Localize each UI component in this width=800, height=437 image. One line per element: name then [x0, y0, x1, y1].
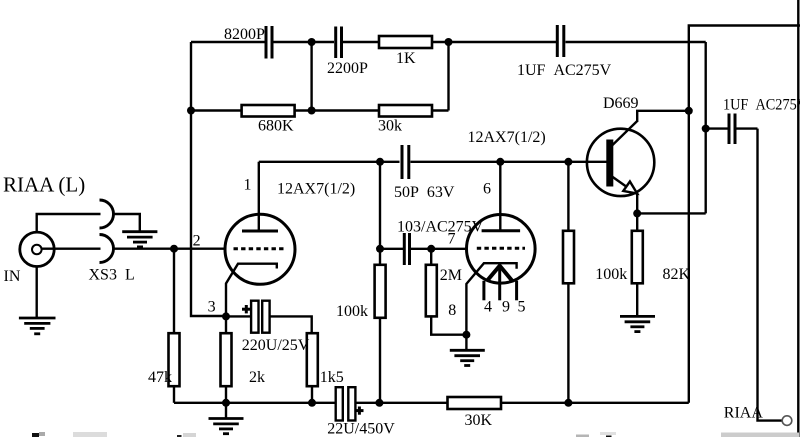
- svg-text:6: 6: [483, 181, 491, 198]
- junction 1K right top: [445, 38, 453, 46]
- svg-text:50P 63V: 50P 63V: [394, 184, 455, 201]
- svg-text:3: 3: [208, 299, 216, 316]
- svg-text:7: 7: [448, 231, 456, 248]
- wire H2: rail to 680K: [191, 109, 242, 111]
- svg-text:100k: 100k: [336, 303, 368, 320]
- wire rail C down to output: [758, 129, 783, 421]
- svg-text:1UF AC275V: 1UF AC275V: [517, 62, 612, 79]
- plus sign 220U: [242, 305, 251, 313]
- ground symbol IN: [19, 318, 56, 334]
- wire vertical node 8200P/2200P down: [310, 42, 312, 111]
- tube U1 grid dashes: [234, 247, 286, 250]
- ground 100k stub: [636, 283, 638, 316]
- svg-text:2200P: 2200P: [327, 60, 368, 77]
- resistor 30k: [379, 105, 432, 117]
- tube U2 cathode: [466, 263, 516, 335]
- wire 50P to transistor base: [411, 161, 607, 163]
- wire 100k to bottom rail: [379, 318, 381, 403]
- junction 103 cap / 2M: [427, 245, 435, 253]
- junction 8200P/2200P top: [308, 38, 316, 46]
- capacitor 220U/25V plates: [251, 301, 258, 333]
- resistor 82K: [563, 231, 574, 283]
- tube U2 grid dashes: [477, 247, 525, 250]
- ground symbol 2k: [209, 419, 244, 434]
- wire pin to XS3: [42, 247, 101, 249]
- pin 5 stub: [515, 281, 518, 301]
- capacitor 50P 63V: [402, 145, 409, 179]
- wire 30K to rail A: [501, 402, 689, 404]
- resistor 100k first: [375, 265, 386, 318]
- junction bottom rail / 1k5: [308, 399, 316, 407]
- transistor collector line: [612, 121, 637, 146]
- bottom cut-off glyph fragments: [32, 432, 799, 437]
- RCA jack inner: [32, 245, 42, 255]
- transistor base bar: [606, 140, 613, 187]
- transistor emitter line: [612, 177, 629, 189]
- plus sign 22U: [355, 407, 363, 415]
- wire upper contact to ground: [113, 214, 140, 232]
- wire 220U to 1k5: [270, 316, 312, 333]
- svg-text:1: 1: [244, 177, 252, 194]
- svg-text:D669: D669: [603, 95, 639, 112]
- tube1 anode lead: [258, 162, 260, 230]
- wire node to 1UF cap: [449, 41, 557, 43]
- wire emitter junction to rail B: [637, 212, 706, 214]
- capacitor 103/AC275V: [380, 248, 403, 250]
- right edge wire: [797, 0, 799, 437]
- junction 100k line / 103 cap: [376, 245, 384, 253]
- wire collector to rail A: [637, 111, 689, 122]
- tube U2 anode bar: [482, 229, 520, 232]
- wire vertical node 1K right down: [447, 42, 449, 111]
- ground symbol XS3: [122, 232, 157, 247]
- ground IN stub: [36, 266, 38, 318]
- svg-text:12AX7(1/2): 12AX7(1/2): [468, 129, 546, 146]
- junction bottom rail / 100k: [375, 399, 383, 407]
- wire x380 node down through 100k: [379, 162, 381, 265]
- resistor 30K: [448, 397, 502, 409]
- resistor 1K: [379, 36, 432, 48]
- svg-text:103/AC275V: 103/AC275V: [397, 218, 484, 235]
- wire 3-node to 220U: [226, 315, 251, 317]
- wire x568 down: [567, 162, 569, 231]
- bottom rail left: [174, 402, 336, 404]
- svg-text:1UF AC275V: 1UF AC275V: [723, 97, 800, 114]
- ground symbol 100k emitter: [620, 316, 655, 331]
- junction tube2 cathode / 2M: [462, 331, 470, 339]
- svg-text:RIAA: RIAA: [724, 405, 764, 422]
- junction grid wire / 47k: [170, 245, 178, 253]
- junction 680K/30k: [308, 107, 316, 115]
- resistor 1k5: [307, 333, 318, 386]
- junction left rail / 680K: [187, 107, 195, 115]
- wire 103 to tube2 grid: [411, 248, 467, 250]
- junction anode rail / 82K: [564, 158, 572, 166]
- svg-text:IN: IN: [4, 268, 21, 285]
- XS3 lower contact arc: [100, 235, 114, 263]
- wire rail B x=706: [705, 42, 707, 213]
- junction bottom rail / 82K: [564, 399, 572, 407]
- svg-text:5: 5: [518, 299, 526, 316]
- svg-text:RIAA (L): RIAA (L): [3, 173, 85, 197]
- tube U1 anode bar: [242, 230, 278, 233]
- XS3 upper contact arc: [100, 200, 114, 228]
- svg-text:680K: 680K: [258, 118, 294, 135]
- wire 22U to 30K: [355, 402, 447, 404]
- wire output cap: [706, 127, 728, 129]
- wire 30k to corner: [432, 109, 449, 111]
- junction anode rail / pin 6: [496, 158, 504, 166]
- capacitor 8200P: [266, 26, 272, 59]
- wire grid wire to tube1: [113, 247, 226, 249]
- wire top rail left vertical: [191, 42, 226, 316]
- junction node 3: [222, 312, 230, 320]
- junction emitter node: [633, 209, 641, 217]
- tube U1 circle: [225, 214, 295, 284]
- junction collector / rail A: [685, 107, 693, 115]
- wire 2200P to R 1K: [343, 41, 379, 43]
- wire 1UF to rail B: [566, 41, 706, 43]
- svg-text:4: 4: [484, 299, 492, 316]
- svg-text:30K: 30K: [465, 412, 493, 429]
- resistor 47k: [173, 249, 175, 334]
- svg-text:47k: 47k: [148, 369, 172, 386]
- svg-text:82K: 82K: [663, 266, 691, 283]
- wire 82K to bottom rail: [567, 283, 569, 403]
- junction rail B / output cap: [702, 125, 710, 133]
- ground tube2 cathode stub: [465, 335, 467, 351]
- svg-text:12AX7(1/2): 12AX7(1/2): [277, 181, 355, 198]
- tube U2 circle: [467, 215, 536, 284]
- heater pin 9 lead: [498, 266, 501, 301]
- junction bottom rail / 2k ground: [222, 399, 230, 407]
- ground 2k stub: [225, 403, 227, 419]
- transistor emitter arrowhead: [623, 182, 637, 194]
- resistor 100k emitter: [632, 231, 643, 283]
- wire H1 top: left to 8200P: [191, 41, 265, 43]
- svg-text:30k: 30k: [378, 118, 402, 135]
- svg-text:2: 2: [193, 233, 201, 250]
- svg-text:9: 9: [502, 299, 510, 316]
- svg-text:1k5: 1k5: [320, 369, 344, 386]
- wire 680K to 30k: [295, 109, 379, 111]
- svg-text:8: 8: [448, 302, 456, 319]
- ground symbol tube2 cathode: [450, 350, 485, 365]
- wire 2M to cathode node: [431, 316, 466, 334]
- transistor Q1 D669 circle: [587, 129, 654, 196]
- wire rail A x=689: [689, 26, 800, 403]
- junction anode rail / 100k: [376, 158, 384, 166]
- resistor 2k: [225, 316, 227, 333]
- svg-text:1K: 1K: [396, 50, 416, 67]
- resistor 680K: [242, 105, 295, 117]
- svg-text:2k: 2k: [249, 369, 265, 386]
- emitter lead down: [636, 194, 638, 231]
- tube U1 cathode: [226, 264, 277, 317]
- svg-text:XS3 L: XS3 L: [89, 267, 135, 284]
- svg-text:8200P: 8200P: [224, 26, 265, 43]
- resistor 2M: [430, 249, 432, 265]
- output terminal circle: [782, 416, 792, 426]
- capacitor 22U/450V plates: [336, 387, 343, 420]
- wire pin6 lead: [499, 162, 501, 230]
- pin 4 stub: [482, 281, 485, 301]
- wire shell up and right: [37, 214, 101, 233]
- tube U2 heater triangle: [487, 266, 512, 281]
- wire H3 anode rail: [259, 161, 400, 163]
- capacitor C 1UF AC275V: [557, 25, 564, 57]
- svg-text:220U/25V: 220U/25V: [242, 337, 310, 354]
- svg-text:100k: 100k: [595, 266, 627, 283]
- capacitor 2200P: [336, 27, 342, 59]
- capacitor C 1UF AC275V output: [729, 114, 735, 145]
- svg-text:22U/450V: 22U/450V: [327, 421, 395, 437]
- RCA jack IN outer: [20, 232, 54, 266]
- wire 1K to node: [432, 41, 449, 43]
- wire 8200P to 2200P: [274, 41, 335, 43]
- wire cap to rail C: [737, 127, 758, 129]
- svg-text:2M: 2M: [440, 267, 462, 284]
